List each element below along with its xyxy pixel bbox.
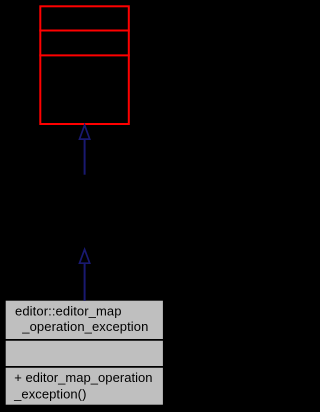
svg-text:_exception(): _exception() [13, 386, 86, 401]
svg-text:editor::editor_map: editor::editor_map [15, 304, 122, 319]
svg-text:+ editor_map_operation: + editor_map_operation [14, 370, 152, 385]
svg-text:_operation_exception: _operation_exception [21, 319, 148, 334]
